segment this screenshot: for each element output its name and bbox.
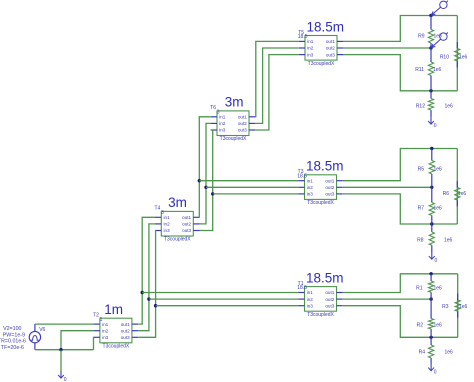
probe probe P1 [431,1,448,16]
svg-text:1: 1 [100,317,103,323]
junction mid bottom rail [430,222,433,225]
voltage source V6 [29,324,45,350]
wire bus1-3 T2.out3 to T4.in3 [138,231,155,338]
coupled-line block T1 (18.5m) [297,270,343,318]
svg-text:out3: out3 [238,128,247,133]
svg-text:TF=20e-6: TF=20e-6 [1,345,24,351]
svg-text:R5: R5 [418,167,425,173]
wire T5.out1 to top rail [343,16,457,42]
wire bus1-1 T2.out1 to T4.in1 [138,217,155,324]
svg-text:in1: in1 [164,215,171,220]
ground mid net [429,253,438,265]
source parameter text [0,326,26,351]
junction bottom rail [429,89,432,92]
svg-text:0: 0 [435,258,438,264]
svg-text:out3: out3 [182,228,191,233]
svg-text:1e6: 1e6 [434,34,443,40]
wire bus3-2 T6.out2 to T5.in2 [255,48,298,123]
svg-text:out1: out1 [121,322,130,327]
svg-text:1e6: 1e6 [433,67,442,73]
junction bot mid node [429,297,432,300]
svg-text:1e6: 1e6 [434,167,443,173]
junction bot bottom rail [429,336,432,339]
svg-text:R6: R6 [443,191,450,197]
wire T1.out3 to bottom rail [343,306,458,338]
svg-text:3m: 3m [225,95,244,110]
svg-text:1e6: 1e6 [434,206,443,212]
svg-text:18.5: 18.5 [297,173,307,179]
ground bottom net [428,364,437,376]
wire T3.out1 to top rail [343,149,457,181]
junction bus1-2 tap [147,297,150,300]
svg-text:in3: in3 [219,128,226,133]
svg-text:out2: out2 [121,328,130,333]
coupled-line block T3 (18.5m) [297,159,343,207]
svg-text:R1: R1 [416,286,423,292]
svg-text:R12: R12 [416,104,425,110]
wire V6+ to T2 in1 [35,323,94,325]
junction bus2-2 tap [204,186,207,189]
coupled-line block T5 (18.5m) [298,19,344,67]
resistor R12 [416,91,453,118]
wire bus3-3 T6.out3 to T5.in3 [255,55,298,130]
wire bus3-1 T6.out1 to T5.in1 [255,41,298,116]
svg-text:T6: T6 [210,105,216,111]
junction bus1-3 tap [154,304,157,307]
wire tap to T3.in3 [213,193,299,195]
svg-text:in1: in1 [219,115,226,120]
svg-text:out1: out1 [182,215,191,220]
svg-text:in1: in1 [307,178,314,183]
svg-text:in2: in2 [307,297,314,302]
coupled-line block T6 (3m) [210,95,255,143]
svg-text:1e6: 1e6 [434,323,443,329]
svg-text:T3coupledX: T3coupledX [308,61,335,67]
wire bus1-2 T2.out2 to T4.in2 [138,224,155,331]
svg-text:3m: 3m [168,195,187,210]
svg-text:out2: out2 [325,185,334,190]
junction mid top rail [430,147,433,150]
svg-text:R7: R7 [418,206,425,212]
svg-text:in3: in3 [307,52,314,57]
wire tap to T1.in2 [149,298,298,300]
resistor R10 [440,42,468,68]
wire to ground [60,350,62,372]
svg-text:in1: in1 [102,322,109,327]
svg-text:PW=1e-9: PW=1e-9 [3,332,25,338]
junction top rail [429,14,432,17]
resistor R6 [443,181,467,207]
svg-text:out2: out2 [238,121,247,126]
svg-text:1e6: 1e6 [434,286,443,292]
svg-text:in3: in3 [102,335,109,340]
svg-text:18.5: 18.5 [298,34,308,40]
svg-text:1e6: 1e6 [444,238,453,244]
svg-text:in1: in1 [307,290,314,295]
svg-text:R3: R3 [442,304,449,310]
svg-text:R10: R10 [440,55,449,61]
svg-text:1e6: 1e6 [459,304,468,310]
wire T5.out3 to bottom rail [343,55,457,91]
svg-text:T2: T2 [93,313,99,319]
svg-text:18.5m: 18.5m [306,159,344,174]
svg-text:R11: R11 [415,67,424,73]
svg-text:out3: out3 [325,192,334,197]
svg-text:out2: out2 [326,46,335,51]
coupled-line block T4 (3m) [154,195,199,243]
svg-text:in2: in2 [102,328,109,333]
resistor R5 [418,149,442,188]
resistor R3 [442,294,467,318]
svg-text:out3: out3 [326,52,335,57]
svg-text:1e6: 1e6 [458,191,467,197]
svg-text:in2: in2 [307,185,314,190]
wire tap to T1.in3 [156,305,299,307]
junction bus1-1 tap [141,291,144,294]
probe probe P2 [431,33,448,48]
wire T1.out1 to top rail [343,274,458,293]
ground bottom-left [58,371,67,382]
svg-text:18.5m: 18.5m [306,270,344,285]
resistor R8 [417,224,452,253]
resistor R4 [419,337,453,364]
svg-text:in1: in1 [307,39,314,44]
svg-text:R4: R4 [419,350,426,356]
svg-text:out2: out2 [325,297,334,302]
wire bus2-1 T4.out1 to T6.in1 [199,117,210,218]
resistor R1 [416,274,442,299]
svg-text:0: 0 [64,377,67,382]
resistor R7 [418,187,442,224]
ground top net [428,117,437,129]
wire tap to T1.in1 [142,292,298,294]
svg-text:1e6: 1e6 [445,350,454,356]
svg-text:out2: out2 [182,222,191,227]
junction bot top rail [429,272,432,275]
resistor R9 [418,16,442,49]
junction mid node [430,186,433,189]
svg-text:18.5m: 18.5m [307,19,345,34]
svg-text:out1: out1 [325,290,334,295]
svg-text:out1: out1 [238,115,247,120]
svg-text:R8: R8 [417,238,424,244]
svg-text:out3: out3 [325,303,334,308]
svg-text:T3coupledX: T3coupledX [103,344,130,350]
wire T3.out3 to bottom rail [343,194,457,224]
svg-text:in3: in3 [164,228,171,233]
wire T1.out2 to mid node [343,298,431,300]
svg-text:T3coupledX: T3coupledX [307,312,334,318]
svg-text:3: 3 [161,210,164,216]
wire bus2-3 T4.out3 to T6.in3 [199,130,212,231]
svg-text:in2: in2 [307,46,314,51]
svg-text:V6: V6 [39,327,45,333]
wire tap to T3.in1 [199,180,298,182]
svg-text:18.5: 18.5 [297,285,307,291]
resistor R2 [417,299,442,337]
svg-text:in2: in2 [164,222,171,227]
svg-text:V2=100: V2=100 [3,326,21,332]
wire bus2-2 T4.out2 to T6.in2 [199,123,210,223]
svg-text:1e6: 1e6 [445,104,454,110]
svg-text:0: 0 [434,123,437,129]
svg-text:0: 0 [434,370,437,376]
junction return/ground [59,348,62,351]
wire return bottom [35,349,94,351]
svg-text:out1: out1 [326,39,335,44]
svg-text:in3: in3 [307,192,314,197]
svg-text:R9: R9 [418,34,425,40]
resistor R11 [415,48,441,91]
svg-text:T3coupledX: T3coupledX [307,200,334,206]
wire T2 in2 down to return [61,331,94,350]
wire T2 in3 down to return [93,337,95,349]
svg-text:in2: in2 [219,121,226,126]
wire T5.out2 to mid node [343,47,431,49]
wire right branch top net [456,16,458,91]
svg-text:R2: R2 [417,323,424,329]
svg-text:3: 3 [217,110,220,116]
wire right branch bottom net [457,274,459,338]
junction mid node top net [429,46,432,49]
svg-text:T3coupledX: T3coupledX [220,136,247,142]
coupled-line block T2 (1m) [93,302,138,350]
svg-text:out3: out3 [121,335,130,340]
junction bus2-1 tap [198,179,201,182]
svg-text:out1: out1 [325,178,334,183]
svg-text:T3coupledX: T3coupledX [164,237,191,243]
wire right branch mid net [456,149,458,225]
svg-text:1m: 1m [104,302,123,317]
wire T3.out2 to mid node [343,186,432,188]
svg-text:in3: in3 [307,303,314,308]
svg-text:1e6: 1e6 [459,55,468,61]
wire tap to T3.in2 [206,186,298,188]
junction bus2-3 tap [211,192,214,195]
svg-text:T4: T4 [154,206,160,212]
svg-text:TR=0.01e-6: TR=0.01e-6 [0,339,26,345]
